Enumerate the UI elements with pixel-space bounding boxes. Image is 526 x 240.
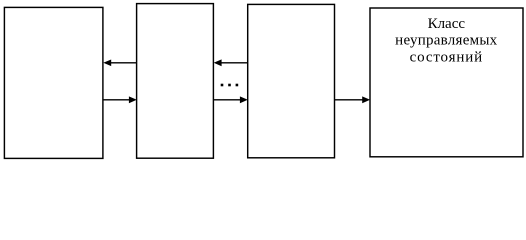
arrow box3 to box4 (right)	[335, 96, 370, 103]
ellipsis dots between box2 and box3	[221, 84, 239, 87]
state box 1	[4, 7, 103, 158]
arrow box2 to box1 (left)	[103, 60, 136, 67]
state box 3	[248, 4, 335, 157]
arrow box1 to box2 (right)	[103, 96, 137, 103]
svg-text:Класс: Класс	[428, 16, 466, 32]
arrow box2 to box3 (right)	[214, 96, 248, 103]
svg-text:неуправляемых: неуправляемых	[395, 33, 497, 49]
state box 2	[137, 4, 214, 159]
state box 4 (class of uncontrolled states)	[370, 8, 523, 157]
svg-text:состояний: состояний	[410, 49, 483, 65]
arrow box3 to box2 (left)	[214, 59, 248, 66]
